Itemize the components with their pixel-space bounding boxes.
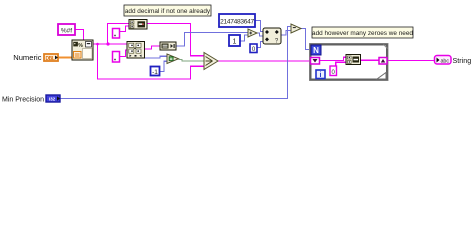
wire: Select output to For Loop shift register (218, 60, 311, 62)
Match Pattern node (127, 42, 145, 59)
string constant . (decimal point, lower) (113, 52, 120, 63)
For Loop count terminal N (311, 45, 321, 55)
Concatenate Strings (in loop) (346, 55, 361, 65)
numeric constant 1 (229, 35, 240, 46)
svg-text:Min Precision: Min Precision (2, 96, 44, 103)
Increment node (248, 29, 257, 37)
svg-text:I32: I32 (49, 97, 56, 102)
control terminal: Min Precision (I32) (46, 95, 60, 102)
wire: zero string constant to Concatenate Strings (336, 62, 346, 66)
shift register left terminal (311, 58, 320, 65)
wire: Match Pattern match substring to String Length (145, 46, 161, 49)
indicator terminal: String (435, 56, 452, 65)
wire: increment output to In Range x (257, 33, 263, 36)
svg-text:-1: -1 (152, 69, 158, 76)
string constant 0 (zero to append) (330, 66, 337, 76)
string constant . (decimal point, upper) (113, 29, 120, 39)
For Loop folded corner (378, 74, 386, 79)
wire: Numeric DBL to Format Into String (58, 57, 72, 59)
svg-text:Numeric: Numeric (13, 53, 41, 62)
junction dot on string wire at x=108 (106, 42, 109, 45)
For Loop top-right bevel (384, 45, 388, 49)
svg-text:1: 1 (233, 39, 237, 46)
svg-text:%#f: %#f (61, 28, 72, 35)
wire: Match Pattern offset to Equal? (145, 56, 168, 58)
numeric constant -1 (151, 67, 160, 77)
Select node (204, 53, 218, 70)
wire: Format Into String output to Match Pattern (93, 43, 127, 45)
control terminal: Numeric (DBL) (44, 54, 58, 62)
wire: dot constant 2 to Match Pattern (120, 50, 128, 57)
wire: String Length to increment (176, 33, 248, 47)
In Range and Coerce node (263, 28, 281, 45)
label: add decimal if not one already (124, 5, 211, 16)
label: add however many zeroes we need (312, 27, 413, 38)
svg-text:i: i (320, 72, 322, 79)
svg-text:2147483647: 2147483647 (220, 19, 254, 26)
svg-text:abc: abc (440, 58, 449, 64)
svg-text:String: String (453, 56, 472, 65)
wire: dot constant 1 to concatenate node (120, 26, 130, 32)
For Loop iteration terminal i (316, 70, 325, 79)
wire: branch down to Select f input (long bottom run) (98, 44, 205, 79)
wire: 2147483647 constant to In Range upper limit (255, 21, 263, 32)
wire: concatenated string to Select t input (147, 24, 204, 56)
svg-text:N: N (313, 46, 319, 55)
numeric constant 0 (250, 44, 257, 53)
string constant %#f (58, 24, 75, 35)
wire: 0 constant to In Range lower limit (257, 42, 263, 48)
numeric constant 2147483647 (219, 14, 255, 27)
For Loop frame (311, 45, 388, 80)
wire: left shift register to Concatenate Strings (320, 57, 347, 60)
junction dot on string wire at x=97.5 (96, 43, 99, 46)
Concatenate Strings node (top, adds the decimal point) (129, 20, 147, 30)
wire: branch up to Concatenate Strings (node1) (108, 24, 130, 45)
wire: -1 constant to Equal? (160, 61, 168, 71)
Equal? node (167, 54, 179, 64)
wire: Concatenate Strings output to right shift register (361, 59, 380, 61)
shift register right terminal (379, 58, 387, 65)
Format Into String node (72, 40, 93, 60)
wire: boolean from Equal? to Select (179, 60, 205, 62)
wire: loop output to String indicator (387, 60, 435, 62)
wire: In Range output to Subtract (281, 31, 291, 36)
wire: 1 constant to increment (240, 35, 248, 41)
wire: Min Precision to Subtract (60, 27, 291, 99)
Subtract node (291, 24, 301, 33)
svg-text:DBL: DBL (45, 56, 54, 62)
svg-text:add however many zeroes we nee: add however many zeroes we need (312, 30, 413, 37)
String Length node (160, 42, 176, 50)
svg-text:add decimal if not one already: add decimal if not one already (125, 8, 211, 15)
wire: Subtract output to For Loop N (301, 29, 311, 50)
wire: %#f format string down into Format Into String (75, 30, 84, 41)
